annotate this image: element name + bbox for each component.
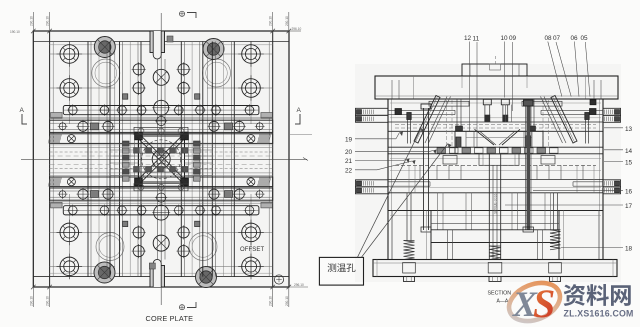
svg-text:290.10: 290.10 — [46, 16, 50, 26]
svg-text:16: 16 — [625, 188, 633, 195]
svg-text:21: 21 — [345, 158, 353, 165]
svg-text:08: 08 — [545, 35, 553, 42]
svg-text:22: 22 — [345, 167, 353, 174]
svg-text:12: 12 — [464, 35, 472, 42]
svg-text:17: 17 — [625, 203, 633, 210]
svg-text:290.10: 290.10 — [29, 296, 33, 306]
svg-text:CORE PLATE: CORE PLATE — [146, 314, 194, 323]
svg-text:190.10: 190.10 — [10, 30, 20, 34]
svg-text:05: 05 — [581, 35, 589, 42]
svg-text:ZL.XS1616.COM: ZL.XS1616.COM — [564, 309, 634, 319]
svg-text:15: 15 — [625, 160, 633, 167]
svg-text:A: A — [20, 107, 25, 114]
svg-text:290.10: 290.10 — [269, 296, 273, 306]
svg-text:290.10: 290.10 — [285, 296, 289, 306]
svg-text:19: 19 — [345, 136, 353, 143]
svg-text:SECTION: SECTION — [488, 291, 512, 297]
svg-text:290.10: 290.10 — [29, 16, 33, 26]
svg-text:18: 18 — [625, 246, 633, 253]
svg-text:06: 06 — [571, 35, 579, 42]
svg-text:290.10: 290.10 — [285, 16, 289, 26]
svg-text:09: 09 — [509, 35, 517, 42]
svg-text:290.10: 290.10 — [46, 296, 50, 306]
svg-text:10: 10 — [501, 35, 509, 42]
svg-text:20: 20 — [345, 149, 353, 156]
svg-text:14: 14 — [625, 148, 633, 155]
svg-text:296.10: 296.10 — [292, 27, 302, 31]
svg-text:290.10: 290.10 — [269, 16, 273, 26]
svg-text:A—A: A—A — [497, 299, 509, 305]
svg-text:07: 07 — [553, 35, 561, 42]
svg-text:S: S — [533, 281, 555, 326]
svg-text:13: 13 — [625, 126, 633, 133]
svg-text:296.10: 296.10 — [294, 283, 304, 287]
svg-text:11: 11 — [473, 36, 480, 43]
svg-text:A: A — [297, 107, 302, 114]
